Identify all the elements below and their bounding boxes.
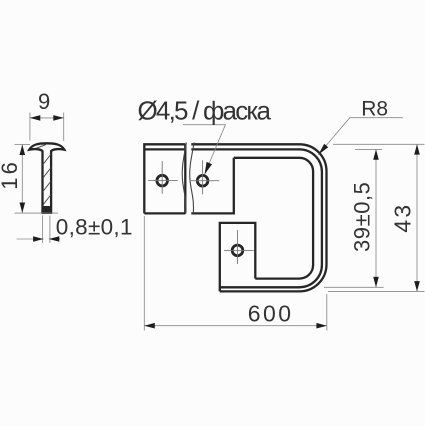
svg-text:9: 9 bbox=[38, 89, 50, 114]
svg-text:0,8±0,1: 0,8±0,1 bbox=[56, 214, 133, 239]
svg-text:43: 43 bbox=[390, 203, 416, 233]
svg-text:R8: R8 bbox=[361, 97, 388, 120]
svg-text:16: 16 bbox=[0, 159, 22, 190]
svg-text:600: 600 bbox=[248, 301, 294, 327]
svg-text:Ø4,5 / фаска: Ø4,5 / фаска bbox=[138, 95, 272, 125]
svg-text:39±0,5: 39±0,5 bbox=[349, 182, 374, 252]
